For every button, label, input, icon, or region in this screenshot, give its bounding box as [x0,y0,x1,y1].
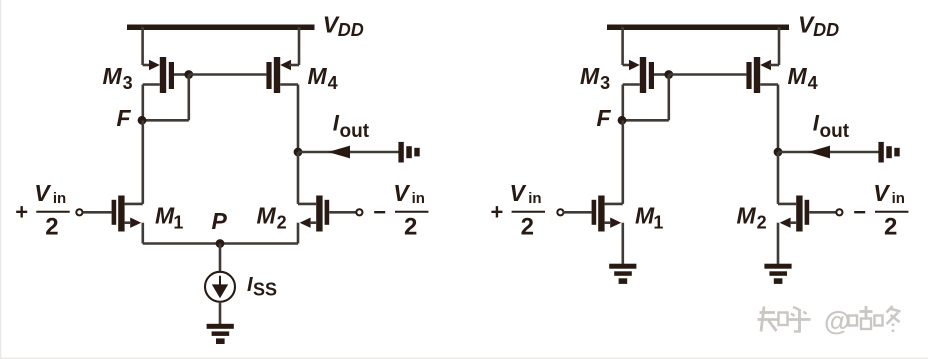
svg-text:out: out [820,121,850,142]
svg-text:M: M [737,203,757,229]
node P junction [216,239,225,248]
wire gate node to M4 gate [189,73,267,76]
watermark glyph 知 [758,307,788,332]
wire M3 source to VDD [143,27,151,65]
svg-text:M: M [308,63,328,89]
node F label [117,105,132,131]
wire M3 source to VDD [623,27,631,65]
svg-text:+: + [491,200,504,225]
transistor M2 (NMOS) [300,196,330,232]
wire output current branch [298,151,399,154]
node P label [212,208,228,234]
wire M2 gate lead [809,211,836,214]
svg-text:4: 4 [328,73,338,93]
terminal M2 gate input [836,209,842,215]
transistor M1 (NMOS) [592,196,622,232]
wire M1 gate lead [563,211,592,214]
svg-text:2: 2 [757,212,767,232]
svg-text:SS: SS [253,280,277,300]
label Vin/2 (left input) [34,180,69,240]
junction gate node (M3/M4 gates) [184,70,193,79]
label ISS [247,274,277,299]
wire M1 source to ground [621,223,624,264]
arrow Iout (current direction) [808,146,830,159]
svg-text:M: M [635,203,655,229]
svg-text:in: in [53,190,66,207]
svg-text:3: 3 [123,73,133,93]
label Vin/2 (right input) [393,180,428,240]
svg-text:in: in [412,190,425,207]
ground symbol (rotated, output short) [878,142,899,163]
wire gate node to M4 gate [669,73,747,76]
transistor M4 (PMOS) [746,57,771,93]
svg-text:1: 1 [653,212,663,232]
wire M3 gate to gate node [174,73,189,76]
svg-text:2: 2 [521,214,534,241]
wire M2 gate lead [329,211,356,214]
svg-text:M: M [103,63,123,89]
transistor M4 (PMOS) [266,57,291,93]
label + (positive input polarity) [15,200,28,225]
svg-text:2: 2 [277,212,287,232]
junction gate node (M3/M4 gates) [664,70,673,79]
label + (positive input polarity) [491,200,504,225]
label M1 [155,203,183,233]
watermark glyph 乎 [787,307,811,333]
ground symbol (tail) [207,324,234,344]
label Vin/2 (right input) [873,180,908,240]
wire M3 gate to gate node [654,73,669,76]
transistor M3 (PMOS, diode-connected) [629,57,654,93]
wire gate node to node F (diode connection) [143,75,189,121]
label M1 [635,203,663,233]
svg-text:P: P [212,208,228,234]
svg-text:M: M [788,63,808,89]
label - (negative input polarity) [373,200,386,225]
net VDD label [798,12,839,41]
svg-text:−: − [373,200,386,225]
terminal M2 gate input [356,209,362,215]
wire M4 source to VDD [769,27,779,65]
label M4 [308,63,338,93]
svg-text:DD: DD [338,20,364,40]
terminal M1 gate input [557,209,563,215]
svg-text:2: 2 [45,214,58,241]
svg-text:V: V [393,180,410,206]
watermark glyph 咚 [875,306,901,332]
wire M2 drain to output node [298,152,316,204]
wire gate node to node F (diode connection) [623,75,669,121]
label M2 [737,203,767,233]
svg-text:M: M [257,203,277,229]
output node junction [294,148,303,157]
wire output current branch [778,151,879,154]
transistor M1 (NMOS) [112,196,142,232]
terminal M1 gate input [76,209,82,215]
current source ISS [205,272,235,302]
wire M2 drain to output node [778,152,796,204]
node F junction [138,116,147,125]
svg-text:4: 4 [808,73,818,93]
label Vin/2 (left input) [510,180,546,240]
label - (negative input polarity) [853,200,866,225]
label Iout [813,110,850,142]
wire M2 source to node P [220,223,298,244]
svg-text:2: 2 [884,214,897,241]
label M2 [257,203,287,233]
net VDD label [323,12,364,41]
wire M1 source to node P [143,223,220,244]
svg-text:V: V [34,180,51,206]
ground symbol (rotated, output short) [398,142,419,163]
label M3 [580,63,610,93]
svg-text:F: F [117,105,132,131]
watermark glyph @ [824,306,850,336]
svg-text:M: M [155,203,175,229]
ground symbol (M2 source) [764,264,791,284]
wire M4 source to VDD [289,27,299,65]
label M4 [788,63,818,93]
node F junction [618,116,627,125]
transistor M2 (NMOS) [780,196,810,232]
watermark glyph 咕 [849,306,873,329]
svg-text:DD: DD [813,20,839,40]
wire M1 drain to node F [125,120,143,204]
wire M3 drain to node F [143,85,160,121]
svg-text:1: 1 [173,212,183,232]
transistor M3 (PMOS, diode-connected) [149,57,174,93]
svg-text:@: @ [824,306,850,336]
wire M4 drain to output node [280,85,298,153]
svg-text:M: M [580,63,600,89]
arrow Iout (current direction) [328,146,350,159]
svg-text:+: + [15,200,28,225]
wire M4 drain to output node [760,85,778,153]
wire VDD rail [607,25,789,31]
ground symbol (M1 source) [609,264,636,284]
svg-text:out: out [340,121,370,142]
wire current source to ground [219,302,222,325]
node F label [597,105,612,131]
svg-text:in: in [892,190,905,207]
svg-text:2: 2 [404,214,417,241]
svg-text:in: in [528,190,541,207]
svg-text:V: V [510,180,527,206]
wire M2 source to ground [777,223,780,264]
svg-text:V: V [873,180,890,206]
label M3 [103,63,133,93]
wire VDD rail [127,25,315,31]
svg-text:F: F [597,105,612,131]
output node junction [774,148,783,157]
wire M3 drain to node F [623,85,640,121]
label Iout [333,110,370,142]
wire M1 gate lead [83,211,112,214]
wire node P to current source [219,244,222,272]
svg-text:−: − [853,200,866,225]
wire M1 drain to node F [605,120,623,204]
svg-text:3: 3 [600,73,610,93]
